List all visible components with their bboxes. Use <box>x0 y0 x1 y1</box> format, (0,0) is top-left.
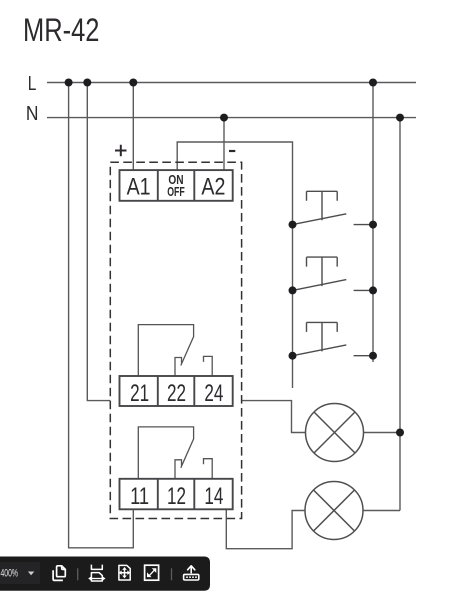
net L line <box>47 82 416 84</box>
fit-page icon <box>119 565 130 580</box>
svg-text:11: 11 <box>130 483 149 510</box>
wire L to terminal 21 <box>87 83 110 401</box>
node S3 right <box>369 352 377 360</box>
wire N to terminal A2 <box>223 118 225 171</box>
svg-text:14: 14 <box>204 483 223 510</box>
wire ON/OFF terminal to push-buttons (left bus, dead-ends below S3) <box>177 142 292 388</box>
wire N to lamps right bus <box>399 118 401 511</box>
net N line <box>47 117 416 119</box>
wire terminal 24 to lamp E1 <box>242 401 306 433</box>
svg-text:12: 12 <box>167 483 186 510</box>
copy icon <box>53 566 65 581</box>
svg-text:MR-42: MR-42 <box>23 12 100 48</box>
svg-text:N: N <box>26 103 39 125</box>
relay contact K2 (changeover for 11/12/14) <box>138 427 212 479</box>
upload icon <box>184 566 199 580</box>
svg-text:22: 22 <box>167 380 186 407</box>
junction node on L (wire to buttons) <box>369 79 377 87</box>
svg-text:21: 21 <box>130 380 149 407</box>
terminal strip 11 / 12 / 14 <box>120 479 233 510</box>
zoom control highlight <box>0 562 40 584</box>
lamp E1 <box>306 404 364 462</box>
junction node on N (wire to lamps) <box>396 114 404 122</box>
wire lamp E2 to N bus <box>363 510 400 512</box>
node S1 right <box>369 221 377 229</box>
MR-42 module enclosure (dashed) <box>110 162 241 518</box>
terminal strip A1 / ON-OFF / A2 <box>120 170 233 201</box>
expand icon <box>145 565 159 580</box>
push-button S1 <box>293 191 374 224</box>
viewer toolbar background <box>0 557 210 591</box>
junction node on L (wire to 21) <box>83 79 91 87</box>
node S2 right <box>369 286 377 294</box>
lamp E2 <box>305 482 363 540</box>
wire L to terminal 11 (left outer loop) <box>69 83 134 548</box>
junction node lamp E1 / N bus <box>396 429 404 437</box>
wire L to push-buttons right bus <box>372 83 374 363</box>
wire terminal 14 to lamp E2 <box>226 509 305 548</box>
junction node on L (wire to 11) <box>65 79 73 87</box>
wire L to terminal A1 <box>132 83 134 171</box>
terminal strip 21 / 22 / 24 <box>120 376 233 406</box>
node S3 left <box>289 352 297 360</box>
push-button S3 <box>293 322 374 355</box>
plus polarity sign <box>115 145 127 157</box>
svg-text:24: 24 <box>204 380 223 407</box>
svg-text:L: L <box>28 73 37 95</box>
push-button S2 <box>293 257 374 290</box>
svg-text:400%: 400% <box>1 568 18 580</box>
minus polarity sign <box>229 150 235 152</box>
fit-width icon <box>91 565 102 581</box>
junction node on N (wire to A2) <box>220 114 228 122</box>
zoom dropdown caret <box>28 572 34 576</box>
toolbar separator 2 <box>171 568 173 580</box>
junction node on L (wire to A1) <box>129 79 137 87</box>
node S1 left <box>289 221 297 229</box>
svg-text:A1: A1 <box>127 174 151 201</box>
toolbar separator 1 <box>77 568 79 580</box>
wire lamp E1 to N bus <box>364 432 401 434</box>
node S2 left <box>289 286 297 294</box>
svg-text:OFF: OFF <box>167 184 185 199</box>
relay contact K1 (changeover for 21/22/24) <box>138 325 212 376</box>
svg-text:A2: A2 <box>201 174 225 201</box>
